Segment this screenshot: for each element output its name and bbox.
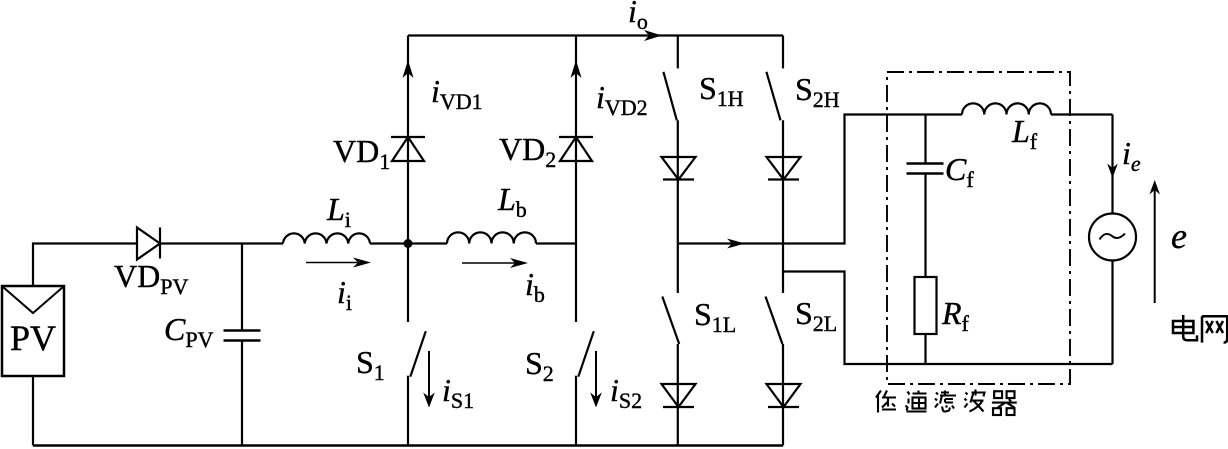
label S2 <box>525 347 554 379</box>
char 波 <box>965 390 985 412</box>
arrow i_e (down) <box>1107 164 1118 179</box>
switch S2L blade <box>766 297 783 345</box>
inductor Li <box>283 233 370 243</box>
label R_f <box>942 297 969 329</box>
char 电 <box>1173 315 1197 340</box>
arrow on mid wire 1 <box>727 239 745 249</box>
bridge leg 2 (S2H/S2L) top segment <box>782 36 784 69</box>
diode VD2 <box>559 136 593 138</box>
label L_b <box>498 183 527 215</box>
arrow i_i <box>306 262 366 264</box>
low-pass filter dash-dot box <box>887 72 1070 384</box>
top bus <box>408 34 783 36</box>
diode D1H (down) <box>662 157 696 180</box>
diode VD1 <box>391 136 425 138</box>
label L_f <box>1012 115 1037 147</box>
S2 leg lower <box>575 376 577 446</box>
wire Li to Lb through node <box>370 242 447 244</box>
arrow i_o <box>644 30 662 41</box>
char 滤 <box>935 391 956 412</box>
char 低 <box>876 391 896 413</box>
switch S2 blade <box>578 331 594 377</box>
bridge mid output wire 2 <box>783 272 1113 365</box>
label i_VD2 <box>596 81 648 113</box>
switch S2H blade <box>766 72 780 121</box>
switch S1 blade <box>410 331 426 377</box>
label i_o <box>628 0 648 27</box>
switch S1L blade <box>662 297 679 345</box>
arrow e (up) <box>1154 190 1156 303</box>
arrow i_VD2 (up) <box>571 60 582 78</box>
resistor R_f <box>915 277 937 334</box>
label S1 <box>356 346 385 378</box>
label VD2 <box>499 133 556 165</box>
PV chevron <box>3 287 63 313</box>
arrow i_S2 (down) <box>595 351 597 399</box>
label PV <box>10 320 56 356</box>
wire Lf to AC branch <box>1051 113 1113 115</box>
label i_VD1 <box>431 75 483 107</box>
wire PV top to main wire <box>33 244 137 287</box>
arrow i_VD1 (up) <box>403 60 414 78</box>
wire R_f to bottom <box>924 334 926 364</box>
capacitor C_PV plates <box>224 329 261 332</box>
label L_i <box>327 193 351 225</box>
label S2H <box>795 73 840 105</box>
S1 leg lower <box>407 376 409 446</box>
wire Lb to S2 leg <box>536 242 576 244</box>
label i_e <box>1122 137 1141 169</box>
inductor Lb <box>447 232 536 243</box>
capacitor C_f plates <box>907 162 944 165</box>
arrow i_b <box>462 262 523 264</box>
leg 1 between S1L and diode <box>677 344 679 446</box>
label i_S1 <box>442 374 474 406</box>
capacitor C_PV branch wire lower <box>241 341 243 446</box>
wire diode to Li <box>160 242 283 244</box>
leg 2 between S2L and diode <box>782 344 784 446</box>
label i_i <box>337 276 352 308</box>
diode VD_PV <box>137 228 160 260</box>
char 器 <box>992 391 1017 415</box>
AC source branch lower wire <box>1111 261 1113 365</box>
label S1L <box>694 298 736 330</box>
node junction dot <box>404 239 413 248</box>
AC tilde <box>1100 234 1126 240</box>
capacitor C_PV branch wire upper <box>241 244 243 331</box>
leg 2 between blade and diode <box>782 120 784 293</box>
diode D2H (down) <box>767 157 801 180</box>
label e <box>1171 218 1187 254</box>
label C_PV <box>164 313 213 345</box>
label VD1 <box>333 135 390 167</box>
arrow i_S1 (down) <box>428 351 430 399</box>
inductor L_f <box>962 103 1051 114</box>
wire C_f to R_f <box>924 174 926 278</box>
bottom bus <box>33 444 783 447</box>
label i_S2 <box>610 374 642 406</box>
switch S1H blade <box>663 72 676 121</box>
AC source circle <box>1089 214 1136 261</box>
bridge leg 1 (S1H/S1L) top segment <box>677 36 679 69</box>
VD1 leg upper wire <box>407 36 409 323</box>
VD2 leg upper wire <box>575 36 577 323</box>
label S2L <box>795 297 837 329</box>
bridge mid output wire 1 <box>678 115 962 244</box>
label VD_PV <box>114 260 188 292</box>
wire PV bottom <box>32 376 34 446</box>
char 通 <box>906 391 927 412</box>
diode D1L (down) <box>662 384 696 407</box>
label C_f <box>945 153 974 185</box>
PV source box <box>2 286 64 376</box>
label S1H <box>699 72 744 104</box>
leg 1 between blade and diode <box>677 120 679 293</box>
char 网 <box>1202 316 1227 342</box>
AC source branch upper wire <box>1111 115 1113 214</box>
label i_b <box>525 268 545 300</box>
diode D2L (down) <box>767 384 801 407</box>
capacitor C_f branch upper <box>924 115 926 164</box>
